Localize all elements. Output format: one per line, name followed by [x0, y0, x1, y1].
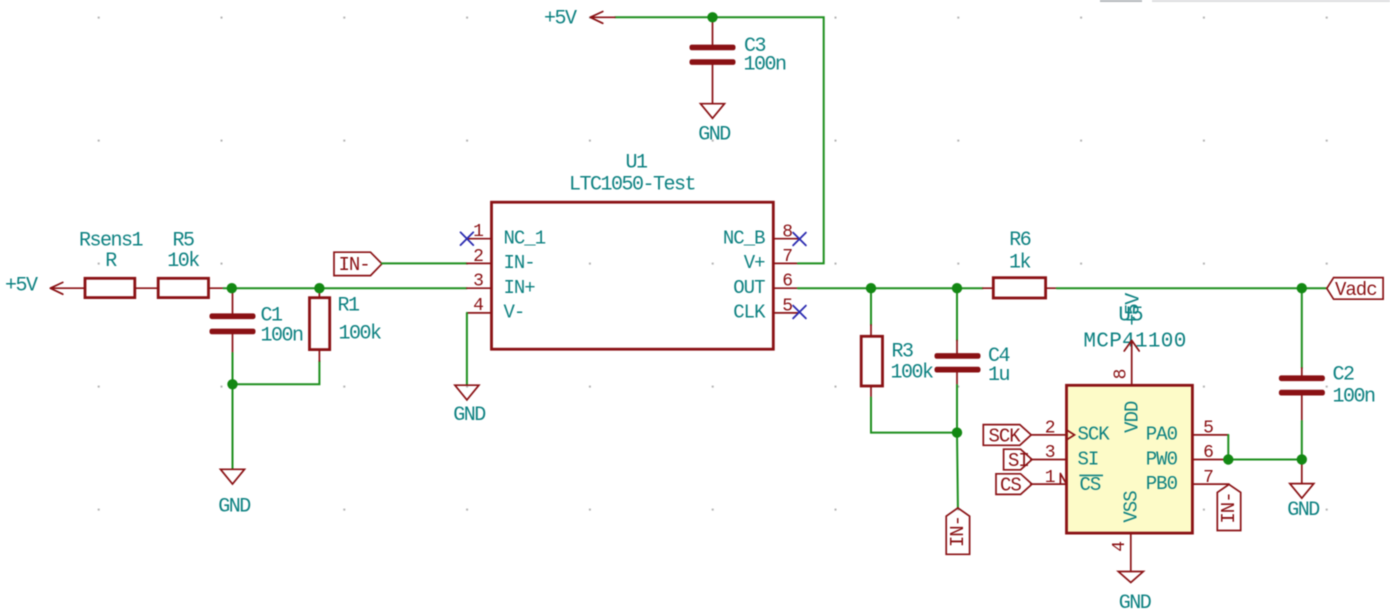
capacitor C3	[690, 17, 787, 103]
svg-text:Vadc: Vadc	[1335, 279, 1377, 301]
wire C2 top	[1301, 288, 1303, 368]
wire IN- to pin2	[382, 262, 467, 264]
svg-text:5: 5	[782, 296, 793, 316]
pin 2 IN-	[467, 247, 535, 274]
svg-text:4: 4	[1110, 541, 1130, 552]
junction R1 top	[314, 283, 324, 293]
resistor R5	[158, 230, 223, 298]
ground GND (U5)	[1118, 572, 1150, 612]
svg-text:100n: 100n	[744, 53, 787, 76]
wire gnd node down	[232, 384, 234, 469]
no-connect X pin 5	[793, 306, 806, 319]
pin 1 NC_1	[467, 222, 546, 249]
power +5V (top)	[544, 8, 615, 31]
op-amp U1 LTC1050-Test body	[492, 151, 774, 349]
svg-text:6: 6	[1203, 443, 1214, 463]
svg-text:4: 4	[473, 296, 484, 316]
wire C4 bottom to node	[956, 385, 958, 433]
pin 1 CS (active low)	[1031, 468, 1103, 496]
svg-text:+5V: +5V	[544, 8, 577, 31]
svg-text:6: 6	[782, 272, 793, 292]
power +5V (U5, vertical)	[1123, 293, 1146, 351]
svg-text:3: 3	[473, 271, 484, 291]
svg-text:PB0: PB0	[1146, 473, 1178, 495]
pin 6 OUT	[733, 272, 798, 299]
svg-text:IN-: IN-	[1218, 492, 1240, 523]
svg-text:LTC1050-Test: LTC1050-Test	[569, 174, 695, 197]
svg-text:IN-: IN-	[947, 516, 969, 547]
pin 7 PB0	[1146, 468, 1229, 495]
wire R6 to Vadc	[1057, 287, 1327, 289]
pin 3 IN+	[467, 271, 535, 299]
svg-text:R6: R6	[1009, 229, 1031, 252]
svg-text:2: 2	[473, 247, 484, 267]
pin 4 V-	[467, 296, 524, 324]
wire pin4 to gnd	[466, 313, 468, 385]
svg-text:7: 7	[782, 247, 793, 267]
svg-text:1: 1	[473, 222, 484, 242]
svg-text:PW0: PW0	[1146, 448, 1178, 470]
svg-text:SCK: SCK	[989, 425, 1022, 447]
svg-text:V-: V-	[504, 302, 525, 324]
wire R3 top	[870, 288, 872, 325]
svg-text:PA0: PA0	[1146, 424, 1178, 446]
svg-text:100n: 100n	[261, 324, 304, 347]
port IN- (PB0, vertical)	[1217, 484, 1240, 530]
svg-text:2: 2	[1045, 418, 1056, 438]
pin 5 CLK	[733, 296, 798, 323]
port Vadc (output)	[1327, 278, 1383, 301]
resistor Rsens1	[79, 230, 158, 298]
svg-text:U1: U1	[625, 151, 648, 174]
wire main line left	[224, 287, 467, 289]
svg-text:1k: 1k	[1009, 252, 1031, 275]
wire OUT to R6	[798, 287, 983, 289]
svg-text:8: 8	[1111, 369, 1131, 380]
svg-text:CS: CS	[1080, 474, 1101, 496]
svg-text:NC_1: NC_1	[504, 228, 546, 250]
svg-text:R3: R3	[892, 340, 914, 363]
svg-text:100k: 100k	[891, 362, 934, 385]
resistor R6	[983, 229, 1057, 298]
power +5V (left)	[5, 275, 85, 298]
svg-text:GND: GND	[1287, 499, 1319, 522]
svg-text:CS: CS	[1000, 475, 1021, 497]
svg-text:VDD: VDD	[1121, 401, 1143, 433]
svg-text:R1: R1	[338, 295, 361, 318]
junction C2 top	[1297, 283, 1307, 293]
resistor R1	[310, 288, 382, 361]
svg-text:V+: V+	[744, 252, 765, 274]
pin 7 V+	[744, 247, 798, 274]
wire PA0 to PW0 node	[1227, 435, 1229, 460]
digital pot U5 MCP41100 body	[1067, 305, 1193, 534]
svg-text:1u: 1u	[988, 364, 1010, 387]
svg-text:7: 7	[1203, 468, 1214, 488]
svg-text:MCP41100: MCP41100	[1083, 331, 1186, 354]
port IN- (left input)	[334, 252, 382, 276]
junction C4 top	[952, 283, 962, 293]
svg-text:1: 1	[1045, 468, 1056, 488]
capacitor C1	[210, 288, 304, 353]
junction C2 bottom node	[1297, 454, 1307, 464]
ground GND (U1)	[453, 385, 485, 427]
junction R3/C4 node	[952, 427, 962, 437]
svg-text:5: 5	[1203, 418, 1214, 438]
svg-text:SI: SI	[1008, 450, 1029, 472]
wire V+ to +5V rail	[615, 17, 824, 263]
capacitor C4	[935, 341, 1010, 387]
no-connect X pin 1	[461, 232, 474, 245]
svg-text:100k: 100k	[339, 323, 382, 346]
svg-text:VSS: VSS	[1121, 491, 1143, 523]
ground GND (left)	[218, 469, 250, 518]
junction PW0 node	[1223, 454, 1233, 464]
pin 4 VSS	[1110, 491, 1143, 571]
wire PW0 node to C2 node	[1228, 459, 1302, 461]
svg-text:GND: GND	[453, 404, 485, 427]
svg-text:SCK: SCK	[1078, 424, 1111, 446]
svg-text:+5V: +5V	[5, 275, 38, 298]
svg-text:GND: GND	[218, 496, 250, 519]
svg-text:IN-: IN-	[339, 254, 370, 276]
svg-text:+5V: +5V	[1123, 293, 1146, 326]
svg-text:R: R	[105, 250, 117, 273]
port IN- (below C4, vertical)	[946, 508, 969, 554]
svg-text:SI: SI	[1078, 448, 1099, 470]
port CS	[996, 474, 1032, 497]
wire R3 bottom to node	[871, 398, 957, 433]
junction C3 top	[707, 12, 717, 22]
svg-text:GND: GND	[698, 124, 730, 147]
svg-text:OUT: OUT	[733, 277, 765, 299]
wire gnd node to R1 bottom	[233, 361, 320, 384]
svg-text:100n: 100n	[1333, 386, 1376, 409]
ground GND (C2)	[1287, 484, 1319, 522]
svg-text:GND: GND	[1119, 592, 1151, 612]
pin 5 PA0	[1146, 418, 1229, 445]
pin 3 SI	[1031, 443, 1099, 470]
port SI	[1004, 449, 1032, 472]
svg-text:C2: C2	[1333, 364, 1355, 387]
wire C4 top	[956, 288, 958, 340]
wire C2 bottom to node	[1301, 421, 1303, 459]
wire node to gnd	[1301, 459, 1303, 483]
pin 8 NC_B	[723, 222, 798, 249]
ground GND (C3)	[698, 104, 730, 147]
pin 6 PW0	[1146, 443, 1229, 470]
junction R3 top	[866, 283, 876, 293]
resistor R3	[861, 325, 933, 398]
pin 2 SCK	[1031, 418, 1111, 445]
svg-text:3: 3	[1045, 443, 1056, 463]
svg-text:8: 8	[782, 222, 793, 242]
svg-text:NC_B: NC_B	[723, 228, 765, 250]
port SCK	[983, 425, 1031, 448]
no-connect X pin 8	[793, 233, 806, 246]
svg-text:CLK: CLK	[733, 302, 766, 324]
pin 8 VDD	[1111, 340, 1143, 432]
wire node to IN- port	[956, 433, 959, 508]
junction C1 top	[227, 283, 237, 293]
wire C1 to gnd node	[232, 353, 234, 384]
capacitor C2	[1279, 364, 1375, 422]
junction gnd node	[227, 379, 237, 389]
svg-text:IN-: IN-	[504, 252, 535, 274]
svg-text:IN+: IN+	[504, 277, 536, 299]
svg-text:10k: 10k	[167, 250, 199, 273]
